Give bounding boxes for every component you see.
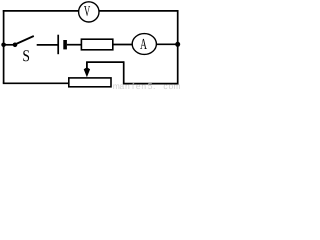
switch S blade [16,36,34,44]
ammeter A1 circle [132,34,156,55]
battery B1 short thick plate [63,40,67,49]
wire battery to resistor [67,44,82,46]
voltmeter V1 label V [84,6,90,16]
wire left vertical [3,10,5,83]
rheostat R2 wiper arrowhead [84,67,90,77]
wire wiper vertical drop [123,61,125,83]
wire bottom right segment [123,83,179,85]
switch S label [23,50,29,61]
wire right vertical [177,10,179,84]
wire switch contact to battery [37,44,58,46]
rheostat R2 wiper arrow stem [86,62,88,72]
wire from left node to switch pivot [4,44,15,46]
wire top left segment [3,10,79,12]
battery B1 long plate [57,35,59,55]
wire wiper horizontal [86,61,124,63]
ammeter A1 label A [140,39,147,49]
node junction dot left [1,43,6,48]
wire bottom left to rheostat [3,82,69,84]
voltmeter V1 circle [79,2,99,22]
node junction dot right [175,42,180,47]
rheostat R2 box [69,78,111,87]
wire resistor to ammeter [113,44,133,46]
watermark manfen5.com [113,83,180,89]
resistor R1 box [81,39,112,50]
wire top right segment [99,10,179,12]
switch S pivot dot [13,43,18,48]
wire ammeter to right node [156,43,178,45]
